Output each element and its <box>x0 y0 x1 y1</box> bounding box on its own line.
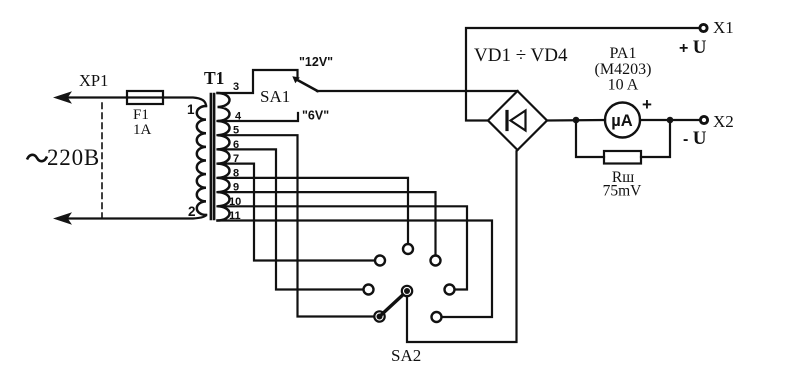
terminal X2 <box>700 116 707 123</box>
svg-text:- U: - U <box>683 128 707 149</box>
svg-text:+: + <box>642 95 652 114</box>
svg-text:11: 11 <box>229 210 241 222</box>
switch SA2 contact 4 <box>364 285 374 295</box>
svg-text:2: 2 <box>188 204 196 219</box>
svg-text:X2: X2 <box>713 112 734 131</box>
svg-text:µA: µA <box>611 112 633 130</box>
wire secondary tap 5 to SA2 contact 7 <box>218 135 375 316</box>
wire bridge right corner to node A <box>547 119 605 122</box>
svg-text:10 A: 10 A <box>608 77 639 94</box>
svg-text:3: 3 <box>233 81 239 93</box>
wire bridge left corner to X1 (+ DC) <box>466 28 700 121</box>
svg-text:10: 10 <box>229 196 241 208</box>
switch SA2 contact 5 <box>445 285 455 295</box>
svg-text:4: 4 <box>235 111 242 123</box>
svg-text:9: 9 <box>233 182 239 194</box>
switch SA2 wiper arm <box>380 291 408 317</box>
fuse F1 <box>127 91 163 104</box>
svg-text:VD1 ÷ VD4: VD1 ÷ VD4 <box>474 45 568 66</box>
svg-text:220B: 220B <box>47 145 100 170</box>
svg-text:1: 1 <box>187 102 195 117</box>
wire secondary tap 4 to SA1 6V contact <box>218 113 299 121</box>
wire secondary tap 10 to SA2 contact 5 <box>218 206 468 289</box>
svg-text:6: 6 <box>233 139 239 151</box>
svg-text:(M4203): (M4203) <box>595 61 652 78</box>
wire secondary tap 9 to SA2 contact 3 <box>218 192 436 255</box>
switch SA1 wiper <box>292 76 300 83</box>
svg-text:SA1: SA1 <box>260 87 290 106</box>
svg-text:1A: 1A <box>133 122 152 138</box>
transformer T1 core <box>210 94 213 219</box>
svg-text:F1: F1 <box>133 107 149 123</box>
node A dot <box>573 117 580 124</box>
node B dot <box>667 117 674 124</box>
svg-text:5: 5 <box>233 125 239 137</box>
wire SA2 common to bridge bottom corner <box>407 150 518 342</box>
wire shunt branch right <box>641 120 670 157</box>
svg-text:"6V": "6V" <box>302 109 329 123</box>
transformer T1 secondary winding <box>218 93 230 221</box>
svg-text:XP1: XP1 <box>79 71 108 90</box>
label ~220B <box>27 155 47 161</box>
wire SA1 common to bridge top corner <box>317 90 518 92</box>
terminal X1 <box>700 24 707 31</box>
svg-text:8: 8 <box>233 167 239 179</box>
wire fuse to transformer primary <box>163 98 206 107</box>
ammeter PA1 body <box>605 103 640 138</box>
switch SA2 contact 1 <box>403 244 413 254</box>
wire secondary tap 7 to SA2 contact 2 <box>218 164 375 261</box>
wire top AC lead <box>66 96 127 98</box>
plug XP1 bottom prong arrow <box>53 212 72 224</box>
shunt resistor Rsh <box>604 151 641 164</box>
plug XP1 top prong arrow <box>53 91 72 103</box>
svg-text:PA1: PA1 <box>610 45 637 62</box>
svg-text:X1: X1 <box>713 18 734 37</box>
diode symbol triangle <box>511 111 526 131</box>
wire ammeter to node B <box>640 119 700 121</box>
svg-text:T1: T1 <box>204 68 224 88</box>
svg-text:"12V": "12V" <box>299 55 333 69</box>
switch SA2 contact 8 <box>432 312 442 322</box>
wire secondary tap 6 to SA2 contact 4 <box>218 149 364 289</box>
switch SA2 contact 2 <box>375 256 385 266</box>
switch SA2 selected contact 7 <box>374 311 384 321</box>
diode symbol cathode bar <box>505 112 508 130</box>
wire bottom AC lead <box>66 215 206 219</box>
svg-text:75mV: 75mV <box>603 183 643 200</box>
wire shunt branch left <box>576 120 604 157</box>
wire secondary tap 3 to SA1 12V contact <box>218 70 298 93</box>
wire secondary tap 11 to SA2 contact 8 <box>218 221 493 318</box>
switch SA2 contact 3 <box>431 256 441 266</box>
wire secondary tap 8 to SA2 contact 1 <box>218 178 409 244</box>
switch SA2 center contact <box>402 286 412 296</box>
diode bridge VD1-VD4 diamond <box>488 91 547 150</box>
svg-text:+ U: + U <box>679 37 707 58</box>
svg-text:SA2: SA2 <box>391 346 421 365</box>
svg-text:7: 7 <box>233 153 239 165</box>
plug XP1 dashed boundary <box>101 103 103 217</box>
transformer T1 primary winding <box>197 106 206 215</box>
